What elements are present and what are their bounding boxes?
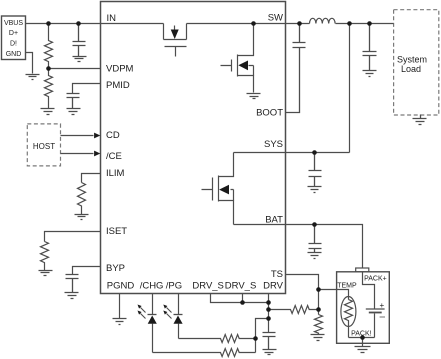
wire LED rail riser [256,319,269,353]
svg-text:VDPM: VDPM [106,64,134,75]
wire ISET [45,232,101,242]
capacitor C2 (PMID) [67,94,80,109]
svg-text:SYS: SYS [264,139,283,150]
wire VDPM [49,68,101,70]
svg-text:DRV: DRV [263,281,284,292]
svg-text:System: System [397,54,427,64]
wire SW out [286,23,310,25]
ground R2 [41,109,55,115]
battery minus mark [380,316,385,318]
transistor Q3 (SYS-BAT FET) [202,153,234,225]
wire BYP [73,267,101,275]
resistor R_ISET [41,242,49,271]
connector J1 (USB) box [2,16,26,60]
ground C_OUT [363,71,377,77]
node SYS-CSYS [312,150,317,155]
svg-text:HOST: HOST [33,142,55,151]
resistor R_DRV (to TS) [269,306,319,314]
node VDPM [46,66,51,71]
node VBUS-R1 [46,21,51,26]
ground Q2 [247,94,261,99]
wire SYS riser [349,24,351,153]
svg-text:CD: CD [106,130,120,141]
svg-text:PACK+: PACK+ [364,276,387,283]
node PACK-GND [360,335,365,340]
ground C_BAT [308,253,322,259]
wire TS [286,275,319,315]
resistor R1 [45,24,53,69]
wire VBUS to IN [26,23,101,25]
ground C2 [67,109,81,115]
svg-text:SW: SW [268,13,283,24]
LED D2 (/PG) [163,294,182,339]
transistor Q2 (low-side FET) [221,24,254,93]
svg-text:PGND: PGND [107,281,135,292]
svg-text:D!: D! [10,41,17,48]
wire DRV [268,294,270,333]
svg-text:Load: Load [401,64,421,74]
node SW-Q2 [251,21,256,26]
node SYS-COUT [367,21,372,26]
resistor R_CHG (row2) [153,349,256,357]
svg-text:ILIM: ILIM [106,168,125,179]
ground PGND [113,319,127,325]
node DRV-RDRV [266,307,271,312]
node L1-SYS [347,21,352,26]
capacitor C_BAT [309,225,322,253]
svg-text:BYP: BYP [106,263,125,274]
IC U1 body [101,2,286,294]
wire DRV_S rail [211,294,269,303]
svg-text:/CE: /CE [106,151,122,162]
arrowhead CE [94,151,100,157]
svg-text:/PG: /PG [166,281,182,292]
capacitor C_BYP [66,275,79,293]
arrowhead CD [94,133,100,139]
wire SYS [234,152,350,154]
HOST box [27,124,60,166]
node LED-RPG [253,336,258,341]
ground C_BYP [65,293,79,299]
ground System Load [413,115,427,125]
arrow HOST to CD [61,135,94,137]
node DRV-DRVS [266,300,271,305]
node DRV-LED [266,316,271,321]
wire BAT [234,225,363,269]
svg-text:DRV_S: DRV_S [225,281,257,292]
node BAT-CBAT [312,222,317,227]
svg-text:/CHG: /CHG [140,281,164,292]
arrow HOST to /CE [61,153,94,155]
node TS-RDRV [316,307,321,312]
inductor L1 [310,18,336,23]
node DRVS2 [240,300,245,305]
wire Q1 to SW [187,23,286,25]
resistor R_ILIM [78,183,86,215]
wire IN to Q1 [101,23,164,25]
capacitor C1 (input) [73,24,86,57]
svg-text:PACK!: PACK! [351,331,372,338]
wire L1 to System Load [336,23,394,25]
svg-text:TS: TS [271,269,283,280]
ground C_DRV [263,350,277,355]
svg-text:GND: GND [6,51,22,58]
ground R_TS [311,335,325,341]
ground pack [355,347,371,353]
node VBUS-C1 [76,21,81,26]
capacitor C_OUT [363,24,377,71]
capacitor C_BOOT [286,24,306,113]
wire connector GND [26,53,33,74]
wire PMID [73,84,101,94]
svg-text:BOOT: BOOT [256,107,283,118]
battery pack box [337,272,390,344]
svg-text:D+: D+ [9,30,18,37]
wire pack bottom rail [349,338,375,347]
svg-text:VBUS: VBUS [4,20,23,27]
svg-text:+: + [380,301,385,310]
thermistor RT1 [341,297,356,338]
LED D1 (/CHG) [138,294,157,353]
svg-text:BAT: BAT [265,214,283,225]
wire TEMP [319,290,349,300]
ground C_SYS [308,187,322,193]
capacitor C_SYS [309,153,322,187]
svg-text:TEMP: TEMP [337,283,357,290]
resistor R_TS [315,315,323,335]
System Load box [394,10,439,115]
resistor R_PG (row1) [179,335,256,343]
wire ILIM [82,174,101,183]
node SW-BOOT [297,21,302,26]
pack terminal tab [356,268,369,272]
svg-text:DRV_S: DRV_S [192,281,224,292]
ground R_ILIM [75,215,89,220]
ground R_ISET [39,271,53,276]
ground C1 [73,57,87,62]
capacitor C_DRV [263,333,276,350]
resistor R2 [45,69,53,109]
svg-text:PMID: PMID [106,80,130,91]
svg-text:ISET: ISET [106,226,127,237]
wire PGND [119,294,121,319]
ground connector [26,75,40,80]
transistor Q1 (input FET) [164,24,187,57]
battery BT1 [363,272,385,338]
node TS-TEMP [316,287,321,292]
svg-text:IN: IN [107,13,117,24]
